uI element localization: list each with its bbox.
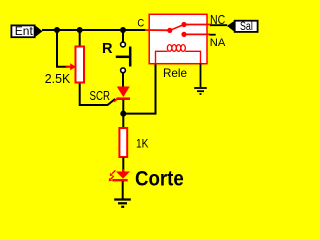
ground (bottom) — [114, 200, 131, 207]
svg-text:Rele: Rele — [163, 66, 187, 80]
input flag Ent — [11, 25, 42, 38]
potentiometer R1 2.5K body — [76, 47, 85, 83]
relay common contact dot — [167, 28, 172, 33]
svg-text:Corte: Corte — [135, 167, 184, 191]
svg-text:NC: NC — [210, 13, 225, 27]
resistor 1K body — [119, 128, 127, 157]
wire: node down to 1K — [122, 114, 124, 128]
relay NA contact dot — [181, 32, 186, 37]
node: junction at wiper branch — [54, 27, 60, 33]
svg-text:2.5K: 2.5K — [45, 72, 71, 86]
wire: potentiometer bottom to SCR gate — [80, 84, 116, 106]
wire: NA stub — [184, 33, 210, 35]
output flag Sal — [227, 21, 258, 33]
ground (relay) — [194, 88, 207, 94]
svg-text:SCR: SCR — [90, 88, 111, 103]
wire: SCR cathode down to node — [122, 100, 124, 114]
wire: 1K to LED anode — [122, 158, 124, 172]
wire: node right and up to relay coil — [123, 64, 155, 114]
wire: NC line to Sal — [184, 24, 211, 26]
node: junction above pushbutton — [120, 27, 126, 33]
node: cathode / coil / 1K junction — [120, 111, 126, 117]
svg-text:1K: 1K — [136, 137, 149, 151]
svg-text:C: C — [137, 18, 144, 30]
node: junction above potentiometer — [77, 27, 83, 33]
relay switch arm — [170, 25, 184, 31]
relay K1 box — [149, 14, 207, 63]
svg-text:NA: NA — [210, 37, 226, 49]
LED D1 (red) — [109, 169, 130, 181]
wire: LED cathode to ground — [122, 181, 124, 199]
potentiometer wiper arrow (red) — [66, 63, 76, 70]
relay common wire (red) — [145, 29, 170, 31]
svg-text:Ent: Ent — [15, 26, 34, 38]
relay NC contact dot — [181, 22, 186, 27]
wire: main horizontal bus from Ent to relay common — [42, 29, 146, 31]
wire: stub from bus down to pushbutton — [122, 30, 124, 42]
LED arrows — [112, 170, 115, 173]
SCR (thyristor, red) — [114, 87, 130, 102]
svg-text:R: R — [102, 40, 113, 57]
wire: relay coil to ground — [200, 64, 202, 88]
wire: stub from bus to potentiometer top — [79, 30, 81, 46]
wire: pushbutton to SCR anode — [122, 73, 124, 87]
svg-text:Sal: Sal — [240, 21, 253, 33]
wire: wiper branch down and right to potentiometer — [57, 30, 68, 67]
relay coil — [156, 51, 201, 63]
pushbutton R (normally open) — [116, 42, 130, 73]
